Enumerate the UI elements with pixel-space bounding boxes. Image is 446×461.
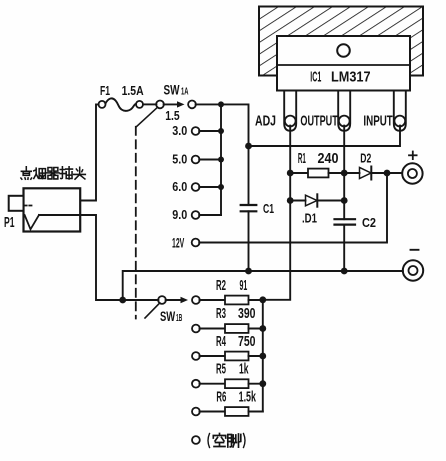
wire C1 to ground rail [248, 211, 250, 271]
wire C2 to ground rail [343, 225, 345, 271]
junction D2 / 12V bypass [384, 170, 391, 177]
binding post + output terminal [402, 163, 422, 183]
wire plug negative down to SW1B [80, 215, 158, 300]
svg-text:R51k: R51k [216, 362, 249, 378]
wire input node down to C1 [248, 146, 250, 205]
resistor R6 with contact [192, 407, 263, 416]
pin 1 ADJ of IC1 [284, 91, 296, 131]
switch SW1B wiper arm [145, 303, 160, 318]
switch SW1A contact 1.5 [188, 101, 196, 109]
svg-text:R1240: R1240 [298, 151, 339, 167]
svg-text:ADJ: ADJ [255, 113, 276, 130]
svg-text:.D1: .D1 [302, 211, 317, 226]
capacitor C1 [241, 205, 257, 211]
svg-text:INPUT: INPUT [363, 113, 392, 130]
junction on 1.5 wire at tap bus [218, 101, 224, 107]
svg-text:P1: P1 [4, 215, 15, 231]
头 [74, 167, 86, 179]
fuse F1 right terminal [136, 101, 143, 108]
svg-text:1.5: 1.5 [165, 109, 179, 123]
junction OUTPUT / D1 [341, 197, 348, 204]
svg-text:OUTPUT: OUTPUT [300, 113, 337, 130]
svg-text:SW1A: SW1A [164, 83, 189, 98]
烟 [34, 168, 46, 178]
svg-text:F11.5A: F11.5A [100, 84, 144, 98]
op-amp/regulator package IC1 LM317 body [277, 36, 410, 91]
svg-text:IC1LM317: IC1LM317 [310, 69, 370, 86]
contact 5.0 [192, 156, 224, 164]
svg-text:5.0: 5.0 [172, 153, 187, 167]
switch SW1B arrow to contact R2 [166, 297, 188, 303]
minus terminal symbol [411, 249, 419, 251]
resistor R4 with contact [192, 352, 266, 361]
pin 2 OUTPUT of IC1 [338, 91, 350, 131]
svg-text:R4750: R4750 [216, 334, 256, 350]
resistor R5 with contact [192, 379, 266, 388]
diode D1 [290, 194, 344, 206]
wire input node: bus corner to INPUT pin [249, 126, 401, 146]
ground rail wire [123, 271, 403, 300]
switch SW1A arrow to contact 1.5 [164, 101, 185, 107]
点 [21, 167, 32, 179]
svg-text:R291: R291 [216, 278, 247, 294]
svg-text:6.0: 6.0 [172, 180, 187, 194]
fuse F1 element (wavy link) [106, 98, 137, 110]
svg-text:C2: C2 [362, 215, 376, 230]
contact 12V [192, 239, 200, 247]
mechanical linkage dashed line [135, 127, 137, 319]
wire 12V contact to output junction [199, 173, 387, 243]
svg-text:12V: 12V [172, 236, 184, 251]
) [244, 434, 246, 448]
svg-text:SW1B: SW1B [160, 308, 182, 324]
resistor R2 with contact [192, 296, 263, 305]
switch SW1A wiper terminal [156, 101, 164, 109]
resistor R3 with contact [192, 324, 266, 333]
diode D2 [344, 167, 402, 180]
label 点烟器插头 (cigarette lighter plug) drawn as vector glyphs [21, 167, 85, 179]
empty pin contact [192, 436, 200, 444]
wire fuse to SW1A wiper [143, 103, 156, 105]
svg-text:R61.5k: R61.5k [216, 389, 256, 405]
svg-text:3.0: 3.0 [172, 124, 187, 138]
label (空脚) empty pin note [208, 434, 245, 448]
switch SW1A wiper arm [136, 107, 157, 127]
junction ADJ / R1 [287, 170, 294, 177]
空 [213, 434, 225, 447]
wire: plug positive up to fuse row [80, 104, 98, 200]
wire contact 1.5 to input bus corner [196, 104, 249, 146]
wire ADJ pin down to R2 chain [263, 126, 290, 300]
器 [47, 168, 59, 179]
junction OUTPUT / R1 [341, 170, 348, 177]
svg-text:C1: C1 [263, 201, 274, 216]
wire OUTPUT pin down to C2 [343, 126, 345, 220]
( [208, 434, 210, 448]
junction rail / SW1B row [119, 297, 126, 304]
junction R2 / divider bus [259, 296, 266, 303]
heatsink hatched slab behind IC1 [259, 7, 423, 76]
switch SW1A tap bus vertical [220, 104, 222, 215]
fuse F1 left terminal [99, 101, 106, 108]
plug P1 body [9, 188, 81, 231]
svg-text:9.0: 9.0 [172, 208, 187, 222]
svg-text:D2: D2 [360, 151, 371, 166]
svg-text:R3390: R3390 [216, 306, 256, 322]
capacitor C2 [335, 219, 356, 224]
divider bus vertical [262, 300, 264, 412]
junction ADJ / D1 [287, 197, 294, 204]
插 [60, 167, 72, 179]
plus terminal symbol [409, 152, 417, 160]
binding post - output terminal [403, 260, 423, 280]
junction C2 / ground rail [341, 268, 348, 275]
IC1 mounting hole [337, 44, 350, 57]
resistor R1 [290, 169, 344, 178]
contact 3.0 [192, 127, 224, 135]
contact 9.0 [192, 211, 221, 219]
switch SW1B wiper terminal [158, 296, 166, 304]
junction input node / C1 [245, 143, 252, 150]
pin 3 INPUT of IC1 [394, 91, 406, 131]
junction C1 / ground rail [245, 268, 252, 275]
contact 6.0 [192, 183, 224, 191]
脚 [228, 434, 241, 447]
